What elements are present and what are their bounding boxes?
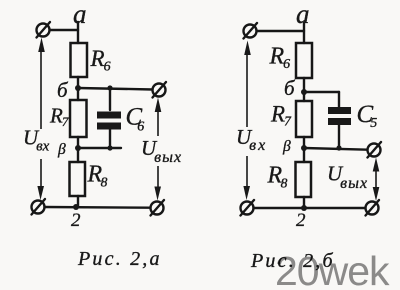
svg-text:Рис. 2,а: Рис. 2,а	[77, 248, 162, 270]
svg-text:β: β	[57, 141, 66, 158]
svg-text:2: 2	[296, 210, 306, 231]
svg-text:C6: C6	[126, 104, 145, 135]
svg-text:β: β	[282, 138, 291, 155]
svg-text:a: a	[73, 0, 87, 29]
svg-text:б: б	[57, 78, 69, 102]
svg-text:2: 2	[71, 210, 81, 231]
svg-text:б: б	[284, 76, 296, 100]
svg-text:a: a	[296, 0, 310, 29]
